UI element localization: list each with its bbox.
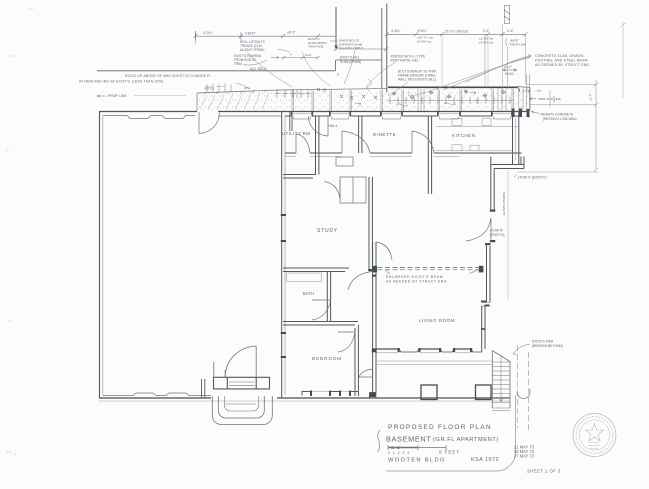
window jambs on apartment west wall xyxy=(281,214,286,358)
svg-text:VENT: VENT xyxy=(245,32,256,36)
svg-text:EXIST'G PIER: EXIST'G PIER xyxy=(532,339,554,343)
svg-text:HOLD: HOLD xyxy=(505,72,515,76)
wall: bath east wall xyxy=(327,272,330,322)
svg-text:FOOTING, AND STEEL REINF: FOOTING, AND STEEL REINF xyxy=(535,59,588,63)
svg-text:3'-0¼": 3'-0¼" xyxy=(203,31,213,35)
svg-text:KITCHEN: KITCHEN xyxy=(452,133,476,138)
diagonal hatch left part of strip xyxy=(200,93,269,110)
svg-text:SHEET 1 OF 3: SHEET 1 OF 3 xyxy=(527,469,561,474)
wall: hall/dinette divider xyxy=(359,116,362,153)
wall: left wing top wall with pilaster notches xyxy=(99,112,197,119)
note: long roof line and adjacent building xyxy=(97,70,336,72)
title block brace xyxy=(378,430,381,452)
extension line x525.5 xyxy=(525,34,527,84)
svg-text:STUDY: STUDY xyxy=(317,228,338,234)
seal: architect registration seal xyxy=(573,414,616,457)
svg-text:10.2': 10.2' xyxy=(305,53,312,57)
svg-text:±6'-2": ±6'-2" xyxy=(287,30,296,34)
svg-text:4: 4 xyxy=(290,53,292,57)
dimension line: right run y34.3 xyxy=(385,32,528,36)
svg-text:ENLARGED EXIST'G BEAM: ENLARGED EXIST'G BEAM xyxy=(386,275,443,279)
window jambs on east wall xyxy=(485,210,495,246)
title block xyxy=(378,395,562,474)
svg-text:AT NEW RAILING W/ EXIST'G (LES: AT NEW RAILING W/ EXIST'G (LESS THAN 30%… xyxy=(79,79,163,83)
circle-plus marks row right half of strip xyxy=(392,89,506,99)
bay: bedroom south window bay xyxy=(302,392,358,396)
svg-text:WOOTEN BLDG: WOOTEN BLDG xyxy=(388,458,446,464)
wall: east wall upper (with retaining stub) xyxy=(491,157,524,212)
svg-text:JOINT MAT'RL-GEL: JOINT MAT'RL-GEL xyxy=(390,58,419,62)
wall: bedroom north wall xyxy=(283,322,358,326)
extension line: dark vertical at x336 xyxy=(335,7,337,49)
svg-text:LIVING ROOM: LIVING ROOM xyxy=(419,318,455,323)
heavy existing-wall line above strip xyxy=(388,86,517,88)
svg-text:±3'-4": ±3'-4" xyxy=(552,95,556,103)
svg-text:BASEMENT: BASEMENT xyxy=(386,435,431,444)
extension line x623 faint xyxy=(622,22,624,98)
wall: study south / bath north wall xyxy=(283,268,349,272)
squiggle marks in strip xyxy=(355,91,477,106)
wall: bedroom east wall xyxy=(355,325,358,396)
extension line x502.5 xyxy=(502,24,504,89)
wall: left wing outer left wall xyxy=(100,112,103,399)
wall: top wall continues under strip to apartment xyxy=(218,112,528,117)
wall: bottom exterior wall xyxy=(99,393,510,401)
svg-text:KSA 1972: KSA 1972 xyxy=(471,457,499,463)
porch left stub wall xyxy=(202,379,205,398)
door: exterior door into hall from top wall xyxy=(309,116,329,136)
svg-text:THIS FACE: THIS FACE xyxy=(308,44,324,48)
small hold dim mid xyxy=(503,69,518,71)
svg-text:(EXIST'G): (EXIST'G) xyxy=(490,233,505,237)
svg-text:BATH: BATH xyxy=(303,291,314,296)
vent stack symbol xyxy=(504,6,509,24)
wall: corridor east / living west wall xyxy=(373,242,376,352)
svg-text:±TOW 8": ±TOW 8" xyxy=(490,228,504,232)
svg-text:~4'±: ~4'± xyxy=(535,89,541,93)
door: dinette door arc xyxy=(342,131,370,153)
cabinet below wall in study area xyxy=(336,157,366,203)
svg-text:AS NEEDED BY STRUCT ENG: AS NEEDED BY STRUCT ENG xyxy=(386,280,447,284)
svg-text:TILL FDN CMPLT: TILL FDN CMPLT xyxy=(339,46,364,50)
title block border curve xyxy=(386,395,516,471)
extension line x485 xyxy=(484,34,486,86)
svg-text:TRIM: TRIM xyxy=(234,62,242,66)
door: utility room door with arc xyxy=(296,134,310,153)
svg-text:DINETTE: DINETTE xyxy=(373,132,396,137)
wall: bottom wall of top room row xyxy=(285,153,522,157)
slash ticks along strip top xyxy=(204,89,267,94)
window jamb blocks on apartment top wall xyxy=(291,111,513,116)
tick row y57 xyxy=(271,56,320,60)
svg-text:SOLID UP ABOVE OF MAY (EXIST'G: SOLID UP ABOVE OF MAY (EXIST'G) CHANGE R… xyxy=(125,74,211,78)
svg-text:5'-6¼": 5'-6¼" xyxy=(418,29,428,33)
window sill lines below top wall xyxy=(294,117,511,120)
door: corridor to living arc xyxy=(376,242,392,260)
svg-text:8 FEET: 8 FEET xyxy=(439,450,460,455)
terrace: lines south of living room xyxy=(377,361,493,365)
wall: east wall mid xyxy=(481,243,490,352)
door: bedroom door arc xyxy=(338,332,355,352)
svg-text:±1'-4": ±1'-4" xyxy=(504,65,512,69)
pier: terrace pier B xyxy=(476,385,492,400)
beam: dashed enlarged existing beam line xyxy=(378,268,479,270)
svg-text:PROP LINE: PROP LINE xyxy=(510,43,526,47)
svg-text:21'-0"± (HOLD): 21'-0"± (HOLD) xyxy=(445,29,468,33)
small sticks above strip left xyxy=(205,83,232,92)
bath tub xyxy=(287,273,322,282)
svg-text:UTILITY RM: UTILITY RM xyxy=(282,131,310,136)
door: east entry to living room arc xyxy=(466,218,491,241)
steps: curved entry steps xyxy=(212,396,272,425)
svg-text:ADJ. BDLG: ADJ. BDLG xyxy=(250,67,267,71)
wall: apartment west wall (double) xyxy=(282,112,285,399)
svg-text:(RETAIN'G LOW WALL: (RETAIN'G LOW WALL xyxy=(543,117,578,121)
svg-text:CONCRETE SLAB, GRAVEL: CONCRETE SLAB, GRAVEL xyxy=(535,54,585,58)
porch: entry stoop with wing walls xyxy=(214,377,270,389)
wire: long grade lines extending right from strip xyxy=(517,80,599,172)
dimension line: left run y36 xyxy=(194,31,337,40)
kitchen counter and sink xyxy=(434,119,518,151)
wall: kitchen east wall (NE corner) xyxy=(513,112,530,165)
corridor jamb blocks xyxy=(368,269,376,277)
svg-text:PROP. LINE: PROP. LINE xyxy=(108,94,127,98)
plus-marks row inside strip xyxy=(274,88,513,104)
leader curves to concrete note xyxy=(413,54,531,96)
door: kitchen door arc xyxy=(412,131,434,153)
pier hook symbol xyxy=(517,389,530,399)
wall: kitchen south partial wall to east xyxy=(491,165,524,169)
svg-text:0 1 2 3 4: 0 1 2 3 4 xyxy=(388,451,410,455)
page margin specks xyxy=(6,9,33,454)
svg-text:±TOW 4" (EXIST'G): ±TOW 4" (EXIST'G) xyxy=(518,176,547,180)
svg-text:PROPOSED FLOOR PLAN: PROPOSED FLOOR PLAN xyxy=(388,424,492,431)
door: entry door leaf and swing xyxy=(214,346,256,377)
svg-text:ALIGN'G TREND: ALIGN'G TREND xyxy=(240,48,265,52)
svg-text:±3'-4": ±3'-4" xyxy=(589,93,593,101)
door: opening in left wing top wall with swing arc xyxy=(199,112,220,134)
dim line y49 xyxy=(336,48,386,50)
svg-text:AS DEEMED BY STRUCT ENG: AS DEEMED BY STRUCT ENG xyxy=(535,63,590,67)
svg-text:(GR.FL APARTMENT): (GR.FL APARTMENT) xyxy=(433,437,499,443)
svg-text:BEDROOM: BEDROOM xyxy=(312,356,342,361)
wall: dinette/kitchen divider extending down xyxy=(428,116,431,194)
svg-text:±6'-8⅜" ±w: ±6'-8⅜" ±w xyxy=(417,39,432,43)
wall: utility west chase pair xyxy=(290,112,292,132)
stair: exterior stair at east side xyxy=(492,351,510,411)
NE corner jamb blocks xyxy=(512,109,530,118)
svg-text:±4'-8⅞" ±w: ±4'-8⅞" ±w xyxy=(479,40,494,44)
door: hallway to terrace arc xyxy=(359,369,373,377)
svg-text:WALL TIES EXIST'G SILL): WALL TIES EXIST'G SILL) xyxy=(398,78,436,82)
wall: utility/hall divider xyxy=(316,116,319,175)
door: study SE door arc xyxy=(348,272,372,291)
leader curves from notes into strip xyxy=(247,50,408,96)
svg-text:REINF'D CONCRETE: REINF'D CONCRETE xyxy=(541,113,574,117)
door: bath door arc xyxy=(312,300,331,320)
window jambs east wall mid xyxy=(481,301,490,307)
wall: living room south wall with bays xyxy=(373,349,482,352)
extension line x195.5 xyxy=(195,31,197,44)
strip: new concrete slab hatched band along top wall xyxy=(197,87,530,112)
svg-text:4'-6": 4'-6" xyxy=(507,29,515,33)
svg-text:HALL: HALL xyxy=(328,123,339,128)
svg-text:27 MAY 73: 27 MAY 73 xyxy=(514,454,535,459)
svg-text:3: 3 xyxy=(337,72,339,76)
svg-text:3'-4": 3'-4" xyxy=(483,29,491,33)
wall: study north wall xyxy=(283,175,316,179)
svg-text:(BROKEN BEYOND): (BROKEN BEYOND) xyxy=(532,344,563,348)
extension line pair x381.8/x386.8 xyxy=(381,8,383,88)
scale bar xyxy=(388,445,446,450)
jamb tick pairs crossing strip xyxy=(292,74,530,111)
svg-text:±10'-2"±: ±10'-2"± xyxy=(204,87,215,91)
extension line x507.5 xyxy=(507,47,509,88)
svg-text:4'-6¾": 4'-6¾" xyxy=(391,29,401,33)
svg-text:±50% FUR LINE: ±50% FUR LINE xyxy=(538,97,561,101)
extension lines x442 x488 faint xyxy=(442,36,488,86)
wall: study east wall xyxy=(369,177,372,269)
wall: apartment top wall inner line with window openings xyxy=(285,114,522,116)
door: study entry arc xyxy=(325,181,341,199)
wall: hallway south jog to bottom wall xyxy=(370,352,377,398)
pier: terrace pier A xyxy=(421,385,437,400)
stair dashed property lines xyxy=(518,345,529,430)
svg-text:EXIST'G PORCH: EXIST'G PORCH xyxy=(502,192,506,215)
svg-text:±6"±: ±6"± xyxy=(244,86,250,90)
